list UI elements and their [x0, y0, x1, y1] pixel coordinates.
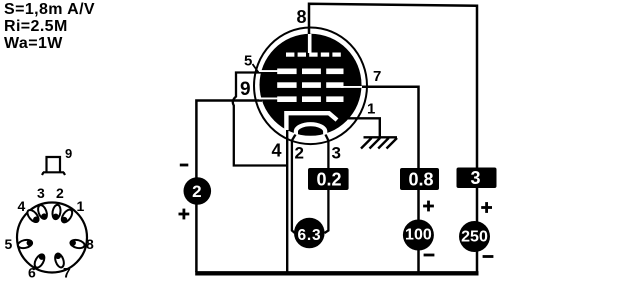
socket pin stub 2: [51, 204, 61, 220]
svg-text:2: 2: [295, 144, 304, 163]
svg-text:2: 2: [192, 182, 201, 201]
wire lead g3 (pin 5/9 bracket) with crossover hop to cathode line: [233, 73, 288, 166]
plus mark col1: [179, 213, 190, 216]
socket pin stub 7: [53, 252, 65, 269]
socket pin stub 4: [25, 208, 41, 225]
tube electrode disc: [260, 34, 362, 136]
grid g1 dashes: [277, 96, 343, 102]
tube envelope U1: [254, 28, 367, 145]
cathode white: [286, 113, 337, 130]
minus mark col3: [483, 255, 494, 258]
svg-text:Ri=2.5M: Ri=2.5M: [4, 18, 68, 35]
tick from 5: [253, 64, 259, 73]
supply 6.3: [294, 218, 325, 249]
meter 0.8: [400, 168, 439, 190]
socket pin stub 1: [59, 208, 74, 225]
svg-text:0.8: 0.8: [408, 169, 433, 189]
bottom rail wire: [195, 271, 478, 275]
battery 2 (grid bias): [184, 177, 212, 205]
svg-text:8: 8: [86, 236, 94, 252]
meter 3: [457, 168, 497, 189]
ground: [361, 137, 397, 148]
socket pin stub 3: [36, 204, 49, 221]
svg-text:0.2: 0.2: [316, 169, 341, 189]
socket circle: [17, 203, 87, 273]
svg-text:250: 250: [461, 228, 488, 245]
svg-text:3: 3: [332, 144, 341, 163]
svg-text:8: 8: [297, 7, 307, 27]
svg-text:4: 4: [272, 141, 282, 161]
grid lead thin lines: [259, 70, 278, 72]
wire heater pin2 down to 6.3 supply: [292, 135, 296, 234]
heater white: [296, 124, 325, 134]
grid g2 dashes: [277, 82, 343, 88]
svg-text:S=1,8m A/V: S=1,8m A/V: [4, 1, 95, 18]
svg-text:5: 5: [5, 236, 13, 252]
minus mark col2: [424, 254, 435, 257]
anode dashed row: [286, 53, 341, 57]
wire pin1 to ground: [346, 118, 380, 136]
svg-text:6.3: 6.3: [298, 227, 322, 244]
svg-text:3: 3: [470, 168, 480, 188]
socket pin9 key symbol: [42, 157, 65, 175]
wire heater pin3 through 0.2 to 6.3 supply: [325, 135, 329, 234]
svg-text:Wa=1W: Wa=1W: [4, 35, 63, 52]
supply 100: [403, 220, 434, 251]
wire lead g1 to bias battery column: [196, 101, 262, 273]
wire pin7 g2 to 0.8 column: [352, 87, 419, 272]
svg-text:9: 9: [240, 79, 251, 100]
socket pin stub 8: [69, 238, 85, 249]
svg-text:1: 1: [367, 101, 375, 118]
socket pin stub 5: [17, 238, 33, 249]
anode lead white: [308, 34, 312, 53]
svg-text:6: 6: [28, 265, 36, 281]
svg-text:9: 9: [65, 146, 72, 161]
grid g3 dashes: [277, 69, 343, 75]
svg-text:2: 2: [56, 185, 64, 201]
svg-text:3: 3: [37, 185, 45, 201]
svg-text:4: 4: [18, 198, 26, 214]
svg-text:7: 7: [373, 68, 381, 85]
plus mark col2: [423, 205, 434, 208]
wire cathode pin4 down to bottom rail: [286, 128, 288, 272]
minus mark col1: [180, 164, 189, 167]
supply 250: [459, 221, 490, 252]
svg-text:1: 1: [77, 198, 85, 214]
svg-text:7: 7: [63, 265, 71, 281]
svg-text:100: 100: [405, 226, 432, 243]
meter 0.2: [308, 168, 349, 190]
socket pin stub 6: [33, 252, 47, 269]
svg-text:5: 5: [244, 53, 252, 70]
wire pin8 anode to top rail: [309, 4, 477, 273]
plus mark col3: [481, 206, 492, 209]
